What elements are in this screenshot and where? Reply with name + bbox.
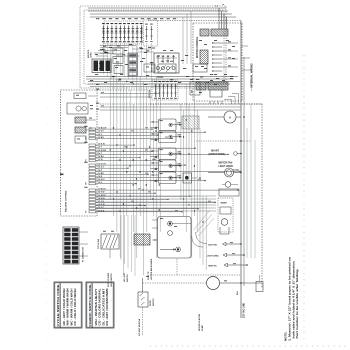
machine control top edge extension <box>97 89 152 91</box>
rail junction dots <box>240 116 245 173</box>
timer switch bank dashed box right <box>144 20 158 46</box>
svg-text:12 GY: 12 GY <box>98 131 104 133</box>
noise filter and fuse blocks <box>113 48 123 74</box>
connector pair P4 <box>75 117 86 123</box>
wires diagonal to rail <box>194 210 214 236</box>
svg-text:KW - KNIT / WOVENS PERM: KW - KNIT / WOVENS PERM <box>106 289 109 326</box>
svg-text:CYCLE SW: CYCLE SW <box>98 239 100 249</box>
console bottom bus wire 5 <box>90 86 226 88</box>
water temperature pushbutton switch <box>154 53 179 73</box>
wire corner nest 2 <box>228 97 235 105</box>
svg-text:CYCLE SWITCH CODE: CYCLE SWITCH CODE <box>56 284 60 326</box>
wire bus rows lower <box>96 196 216 211</box>
svg-text:CO - COLORS NORMAL: CO - COLORS NORMAL <box>99 288 102 326</box>
wire corner nest 1 <box>232 94 239 105</box>
thermal fuse box <box>182 116 199 129</box>
machine control connector pins P7 <box>84 126 95 213</box>
bullet connector light <box>208 242 241 246</box>
timer cam switch contacts <box>102 23 143 42</box>
svg-text:— INTERNAL WIRING: — INTERNAL WIRING <box>250 63 254 91</box>
bullet connector GRN-YEL <box>208 263 247 267</box>
svg-text:L1: L1 <box>216 6 219 8</box>
svg-text:A: A <box>229 116 231 120</box>
svg-text:TEMP SW: TEMP SW <box>152 63 154 72</box>
spin solenoid SOL1 <box>208 111 241 123</box>
door lock box <box>256 275 263 292</box>
svg-text:P1: P1 <box>86 159 88 161</box>
vertical wire harness center <box>110 44 160 275</box>
motor control connector J4 <box>208 82 228 90</box>
svg-text:18 G: 18 G <box>98 182 103 184</box>
label plug to lighted backguard <box>148 258 153 280</box>
wire rail right 3 <box>246 128 248 258</box>
wire top bus 3 <box>90 13 232 15</box>
console bottom bus wire 3 <box>88 81 241 83</box>
labels switch row <box>146 61 204 68</box>
svg-text:HC - HOT / COLD WASH: HC - HOT / COLD WASH <box>63 288 66 325</box>
svg-text:16 G-Y: 16 G-Y <box>98 167 105 169</box>
svg-text:WC - WARM / COLD WASH: WC - WARM / COLD WASH <box>70 288 73 325</box>
connector pair P5 <box>75 127 86 133</box>
hood fan motor M3 <box>208 162 241 178</box>
svg-text:P7: P7 <box>86 210 88 212</box>
wires to door switches <box>110 215 135 276</box>
svg-text:14 V: 14 V <box>98 133 103 136</box>
wire dashed row 141 <box>196 140 251 142</box>
svg-text:18 R-B: 18 R-B <box>98 210 105 212</box>
connector strip P2 <box>128 53 138 76</box>
console infill wires <box>98 46 154 56</box>
bleach dispenser solenoid <box>151 148 182 160</box>
svg-text:14 R: 14 R <box>98 175 103 178</box>
main harness connector P1 <box>63 227 88 264</box>
wire rail N right <box>243 57 245 286</box>
vertical wire harness right <box>181 84 206 270</box>
wire dashed row 283 <box>143 282 207 284</box>
wire bus row 107 <box>100 106 241 108</box>
svg-text:(FROST MODE): (FROST MODE) <box>209 154 226 156</box>
water level switch bank <box>152 80 178 100</box>
svg-text:P1 CONNECTOR: P1 CONNECTOR <box>83 246 85 262</box>
wire dashed drop 177 <box>176 259 178 275</box>
svg-text:FABRIC SWITCH CODE: FABRIC SWITCH CODE <box>88 284 92 326</box>
hot water valve solenoid <box>151 119 182 131</box>
svg-text:14 P-W: 14 P-W <box>98 203 105 206</box>
terminal block TB1 <box>92 59 111 73</box>
legend fabric switch code <box>86 282 114 328</box>
svg-text:12 W: 12 W <box>98 159 103 161</box>
note text block <box>284 257 300 341</box>
timer switch contacts right group <box>145 24 153 42</box>
cold water valve solenoid <box>151 131 182 143</box>
wire corner nest 3 <box>224 100 232 105</box>
svg-text:125 VAC LINE: 125 VAC LINE <box>243 303 246 318</box>
wires motor control right <box>242 46 252 70</box>
wire junctions <box>110 76 204 241</box>
svg-text:CORD: CORD <box>91 52 93 58</box>
console inner dashed border <box>84 10 224 84</box>
machine control box edge mark <box>60 174 63 176</box>
wires from timer bank <box>104 43 152 82</box>
svg-text:SWITCH: SWITCH <box>127 274 129 282</box>
svg-text:14 W-BK: 14 W-BK <box>98 149 107 152</box>
svg-text:MOTOR CONTROL: MOTOR CONTROL <box>196 36 199 58</box>
wire N top bus <box>88 10 228 12</box>
wire top bus 4 <box>90 16 236 18</box>
svg-text:16 Y: 16 Y <box>98 153 103 155</box>
motor control board dashed box <box>193 23 242 101</box>
recirculation pump motor M4 <box>207 277 263 290</box>
door switch S2 <box>138 278 148 336</box>
bullet connector light grd <box>207 253 244 257</box>
label door closed light switch <box>108 272 113 287</box>
fold mark dotted line right <box>303 55 305 344</box>
wire L1 top bus <box>88 7 226 9</box>
motor control labels <box>199 40 235 93</box>
svg-text:16 R-W: 16 R-W <box>98 144 105 146</box>
wire hook arc 2 <box>192 236 203 247</box>
wire rail right 5 <box>254 140 256 258</box>
wash valve assembly <box>218 198 233 234</box>
svg-text:18 BR: 18 BR <box>98 137 104 139</box>
svg-text:14 T-W: 14 T-W <box>98 191 105 194</box>
console bottom bus wire 4 <box>88 83 230 85</box>
svg-text:18 P: 18 P <box>98 170 103 172</box>
svg-text:DL - DELICATES KNIT: DL - DELICATES KNIT <box>102 288 105 326</box>
svg-text:LIGHT NO: LIGHT NO <box>208 245 218 247</box>
label lid lock switch <box>124 272 129 282</box>
motor control connector J2 <box>211 29 228 36</box>
svg-text:12 BU-R: 12 BU-R <box>98 189 106 191</box>
console drop wires right <box>183 11 191 64</box>
wire below timer bank <box>100 45 136 47</box>
internal wiring boundary rail <box>240 21 242 319</box>
svg-text:BLK: BLK <box>237 290 239 295</box>
shunt frost mode symbol <box>209 151 242 156</box>
wires machine control internal <box>86 96 96 130</box>
console bottom bus wire 2 <box>86 78 234 80</box>
switch box S5 <box>193 64 207 72</box>
rinse dispenser solenoid <box>151 160 182 172</box>
wire dashed row 275 <box>150 274 240 276</box>
motor control connector J3 <box>196 82 206 90</box>
svg-text:14 GY-R: 14 GY-R <box>98 163 106 166</box>
motor control bottom drops <box>210 101 222 104</box>
wire dashed boundary top <box>148 20 241 22</box>
motor control pin header P3 <box>212 41 238 71</box>
svg-text:RECIRCULATION: RECIRCULATION <box>198 313 201 331</box>
motor control connector J1 <box>200 29 209 36</box>
svg-text:18 BU: 18 BU <box>98 156 104 158</box>
connector strip P8 <box>134 234 150 245</box>
wire bus row 97 <box>100 96 152 98</box>
svg-text:125 VAC 60HZ 8A: 125 VAC 60HZ 8A <box>138 318 141 336</box>
fold mark dotted line bottom <box>150 345 348 347</box>
timer buzzer BZ1 <box>222 182 238 188</box>
wire bus labels left <box>96 89 104 110</box>
fold mark dotted line left <box>45 22 47 344</box>
label recirculation pump <box>198 313 204 331</box>
switch box S3 <box>144 64 155 72</box>
wire L1 drop <box>218 8 220 29</box>
console bottom bus wire 1 <box>86 76 238 78</box>
wire bus row 110 <box>100 109 241 111</box>
svg-text:PLUG TO: PLUG TO <box>148 271 150 280</box>
svg-text:LIGHT HOOD: LIGHT HOOD <box>219 166 234 168</box>
svg-text:16 W-V: 16 W-V <box>98 179 105 181</box>
svg-text:SHUNT: SHUNT <box>211 151 220 153</box>
cycle selector switch S1 <box>101 231 119 249</box>
svg-text:DOOR: DOOR <box>150 300 152 306</box>
timer switch bank dashed box <box>104 21 142 44</box>
svg-text:DOOR CLOSED: DOOR CLOSED <box>108 272 110 287</box>
svg-text:12 BK: 12 BK <box>98 173 104 175</box>
switch box S6 <box>190 82 200 95</box>
svg-text:GRN/ YEL: GRN/ YEL <box>208 266 218 268</box>
connector pair P6 <box>75 136 86 143</box>
motor control harness loop <box>210 90 222 97</box>
softener dispenser solenoid <box>151 172 182 184</box>
relay box K2 <box>219 189 239 196</box>
console wire labels <box>90 46 233 86</box>
svg-text:WH - WHITES HEAVY: WH - WHITES HEAVY <box>95 288 98 325</box>
lid switch S4 <box>158 64 176 73</box>
wire drop 3 <box>223 14 225 29</box>
svg-text:WASH: WASH <box>221 202 228 205</box>
wire hook arc <box>196 232 207 244</box>
wire bus row 93 <box>100 93 160 95</box>
junction dots right <box>240 243 248 284</box>
svg-text:LIGHT SWITCH: LIGHT SWITCH <box>111 273 113 287</box>
svg-text:CC - COLD / COLD WASH: CC - COLD / COLD WASH <box>74 288 77 325</box>
pressure dome device <box>183 173 197 183</box>
svg-text:MACHINE CONTROL: MACHINE CONTROL <box>65 190 68 212</box>
svg-text:PUMP: PUMP <box>202 324 204 331</box>
wire drop 4 <box>226 17 228 29</box>
svg-text:LIGHT (GRD): LIGHT (GRD) <box>207 256 219 258</box>
junction label below timer <box>129 44 132 45</box>
svg-text:Part number to be visible afte: Part number to be visible after folding. <box>295 268 299 338</box>
svg-text:SWITCH: SWITCH <box>153 298 155 306</box>
legend cycle switch code <box>54 282 82 328</box>
machine control harness wires <box>96 127 241 212</box>
svg-text:LID LOCK: LID LOCK <box>124 272 126 282</box>
svg-text:P8: P8 <box>86 182 88 184</box>
label door switch <box>150 298 155 306</box>
label br wire <box>146 275 149 278</box>
timer motor M1 <box>67 93 93 114</box>
timer label row <box>96 18 176 19</box>
svg-text:WW - WARM / WARM WASH: WW - WARM / WARM WASH <box>67 288 70 325</box>
console enclosure dashed border <box>80 6 226 88</box>
wire N drop <box>221 11 223 29</box>
wires terminal block <box>94 51 110 56</box>
label service cord <box>88 49 93 58</box>
cabinet dashed border right <box>150 104 262 288</box>
wire rail right 4 <box>250 104 252 258</box>
wire bus row 104 <box>100 103 262 105</box>
machine control dashed box <box>61 90 98 216</box>
svg-text:MOTOR FAN: MOTOR FAN <box>219 162 233 165</box>
svg-text:16 BU-W: 16 BU-W <box>98 128 106 130</box>
svg-text:LIGHTED BACKGUARD: LIGHTED BACKGUARD <box>150 258 153 280</box>
motor control relay K1 <box>200 50 208 64</box>
drive motor M2 <box>152 217 191 259</box>
